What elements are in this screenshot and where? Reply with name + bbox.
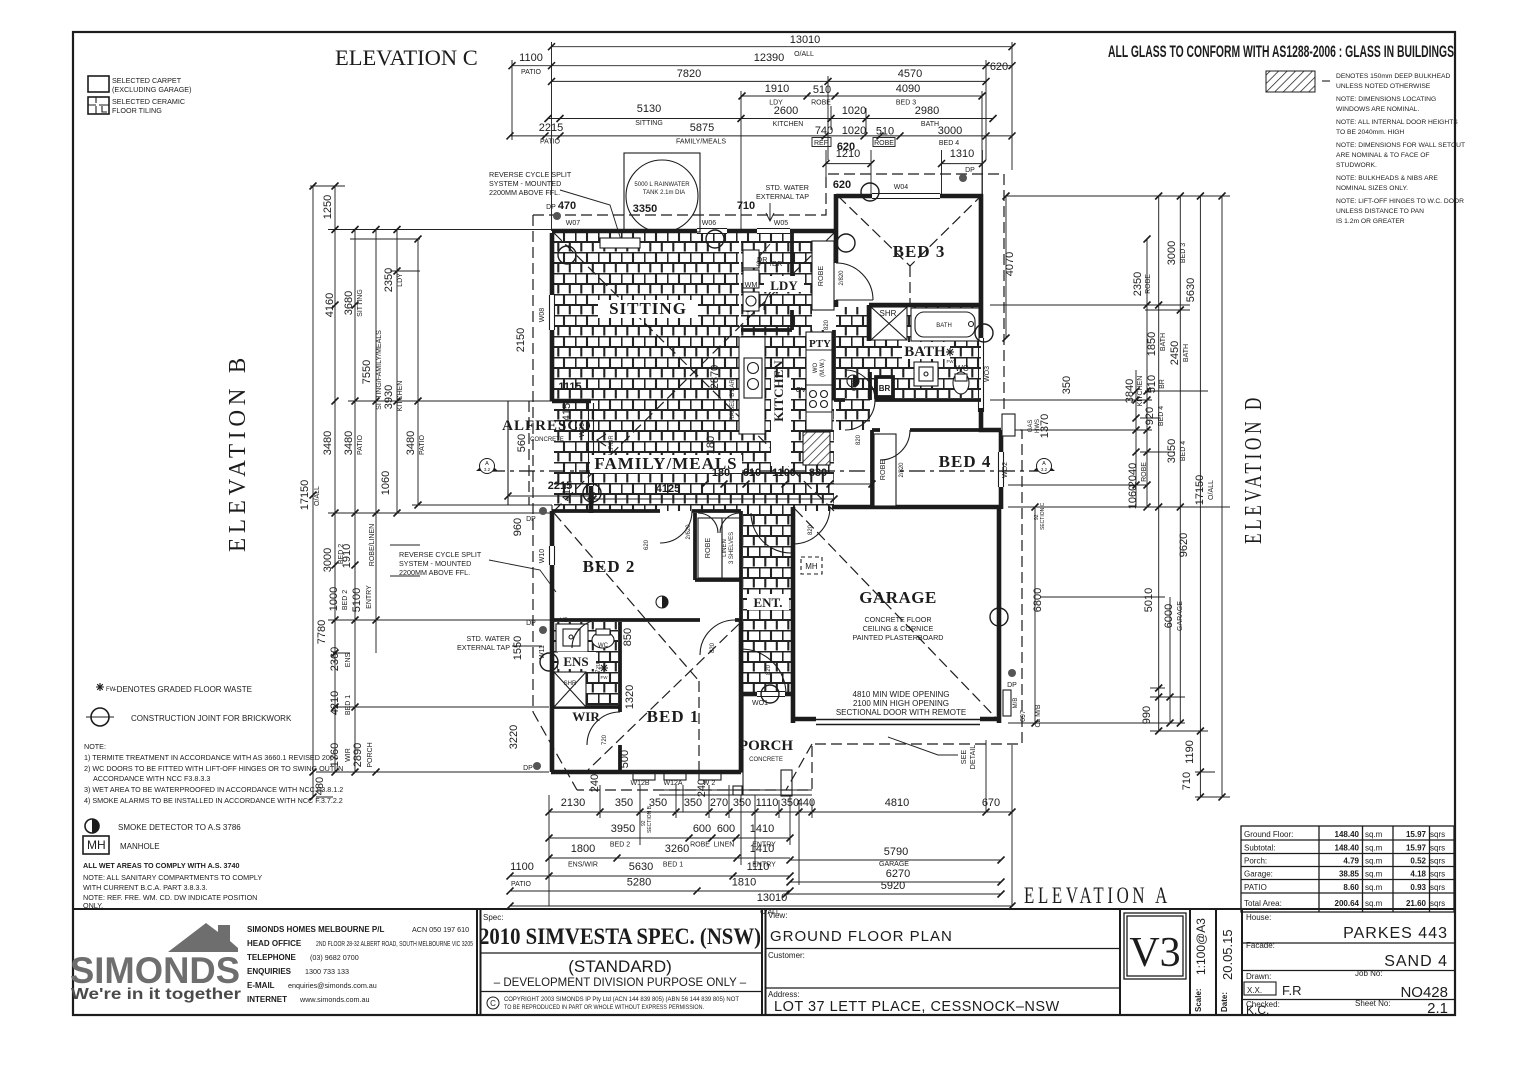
svg-text:1190: 1190 xyxy=(1184,740,1196,764)
ens fixtures xyxy=(556,624,588,652)
notes list xyxy=(84,742,343,805)
svg-text:DP: DP xyxy=(1007,682,1017,689)
svg-text:2980: 2980 xyxy=(915,105,939,117)
svg-text:510: 510 xyxy=(1146,375,1158,393)
svg-text:SELECTED CERAMIC: SELECTED CERAMIC xyxy=(112,97,185,106)
svg-text:5000 L RAINWATER: 5000 L RAINWATER xyxy=(634,182,690,188)
tiled floor regions xyxy=(554,233,739,511)
svg-text:Garage:: Garage: xyxy=(1244,870,1273,879)
legend: selected carpet xyxy=(88,76,191,94)
svg-text:1100: 1100 xyxy=(772,467,796,479)
svg-text:W12A: W12A xyxy=(663,780,682,787)
bulkhead hatch symbol xyxy=(1266,71,1315,92)
svg-text:ROBE: ROBE xyxy=(1145,274,1152,294)
dashed hips bed2/bed1 xyxy=(554,513,699,681)
svg-text:ROBE: ROBE xyxy=(878,460,887,481)
svg-text:BED 2: BED 2 xyxy=(610,842,630,849)
svg-text:Total Area:: Total Area: xyxy=(1244,899,1282,908)
svg-text:820: 820 xyxy=(824,319,830,330)
svg-text:4.18: 4.18 xyxy=(1410,870,1426,879)
svg-text:RAISED B'BAR: RAISED B'BAR xyxy=(730,379,736,421)
laundry fixtures xyxy=(743,250,759,268)
svg-text:Ground Floor:: Ground Floor: xyxy=(1244,830,1293,839)
svg-text:5130: 5130 xyxy=(637,103,661,115)
svg-text:MANHOLE: MANHOLE xyxy=(120,842,160,851)
svg-text:350: 350 xyxy=(615,797,633,809)
svg-text:500: 500 xyxy=(619,750,631,768)
svg-text:148.40: 148.40 xyxy=(1335,844,1360,853)
svg-text:ENS: ENS xyxy=(563,654,588,669)
svg-text:5920: 5920 xyxy=(881,880,905,892)
svg-text:NOTE: BULKHEADS & NIBS ARE: NOTE: BULKHEADS & NIBS ARE xyxy=(1336,175,1438,182)
svg-text:3 SHELVES: 3 SHELVES xyxy=(729,532,735,564)
svg-text:Drawn:: Drawn: xyxy=(1246,972,1271,981)
right dimension chains xyxy=(990,193,1230,801)
DP markers xyxy=(553,212,561,220)
svg-text:ELEVATION A: ELEVATION A xyxy=(1024,883,1171,908)
svg-text:820: 820 xyxy=(710,642,716,653)
svg-text:NOTE:: NOTE: xyxy=(84,742,106,751)
svg-text:180: 180 xyxy=(712,467,730,479)
svg-text:SYSTEM - MOUNTED: SYSTEM - MOUNTED xyxy=(399,559,471,568)
svg-text:(EXCLUDING GARAGE): (EXCLUDING GARAGE) xyxy=(112,85,191,94)
svg-text:2/620: 2/620 xyxy=(686,524,692,540)
svg-text:2150: 2150 xyxy=(515,328,527,352)
svg-text:350: 350 xyxy=(684,797,702,809)
svg-text:4090: 4090 xyxy=(896,83,920,95)
svg-text:1910: 1910 xyxy=(765,83,789,95)
svg-text:TANK 2.1m DIA: TANK 2.1m DIA xyxy=(643,190,685,196)
dash-dot section line A-A xyxy=(489,470,1040,472)
svg-text:620: 620 xyxy=(837,141,855,153)
svg-text:1060: 1060 xyxy=(1127,485,1139,509)
svg-text:240: 240 xyxy=(589,774,601,792)
svg-text:17150: 17150 xyxy=(299,480,311,511)
svg-text:Spec:: Spec: xyxy=(483,913,503,922)
left dimension chains xyxy=(299,183,552,801)
svg-text:TO BE 2040mm. HIGH: TO BE 2040mm. HIGH xyxy=(1336,129,1404,136)
svg-text:WITH CURRENT B.C.A. PART 3: WITH CURRENT B.C.A. PART 3.8.3.3. xyxy=(83,883,207,892)
svg-text:3.2: 3.2 xyxy=(1041,467,1048,472)
svg-text:2010 SIMVESTA SPEC. (NSW): 2010 SIMVESTA SPEC. (NSW) xyxy=(479,924,761,949)
smoke detectors xyxy=(847,375,859,387)
svg-text:620: 620 xyxy=(833,179,851,191)
svg-text:CL M/B: CL M/B xyxy=(1035,704,1042,727)
svg-text:SHR: SHR xyxy=(564,681,577,687)
svg-text:CONCRETE: CONCRETE xyxy=(749,757,783,763)
svg-text:17150: 17150 xyxy=(1194,475,1206,506)
svg-text:WC: WC xyxy=(955,364,969,373)
svg-text:NOTE: DIMENSIONS LOCATING: NOTE: DIMENSIONS LOCATING xyxy=(1336,96,1436,103)
svg-text:820: 820 xyxy=(856,434,862,445)
svg-text:– DEVELOPMENT DIVISION PURP: – DEVELOPMENT DIVISION PURPOSE ONLY – xyxy=(494,977,747,989)
svg-text:WO2: WO2 xyxy=(1002,462,1009,478)
svg-text:PATIO: PATIO xyxy=(540,139,561,146)
svg-text:DP: DP xyxy=(526,516,536,523)
svg-text:1100: 1100 xyxy=(519,52,543,64)
svg-text:2ND FLOOR 28-32 ALBERT ROAD, S: 2ND FLOOR 28-32 ALBERT ROAD, SOUTH MELBO… xyxy=(316,939,473,948)
svg-text:sqrs: sqrs xyxy=(1430,899,1445,908)
svg-text:sqrs: sqrs xyxy=(1430,857,1445,866)
svg-text:1110: 1110 xyxy=(756,797,779,809)
svg-text:PTY: PTY xyxy=(809,338,831,350)
dashed diag garage xyxy=(795,509,999,721)
svg-text:NOTE: ALL INTERNAL DOOR HEIGH: NOTE: ALL INTERNAL DOOR HEIGHTS xyxy=(1336,119,1458,126)
svg-text:BATH: BATH xyxy=(904,344,946,360)
svg-text:2040: 2040 xyxy=(1127,463,1139,487)
svg-text:S: S xyxy=(756,259,761,268)
svg-text:1550: 1550 xyxy=(512,636,524,660)
svg-text:SITTING: SITTING xyxy=(357,289,364,317)
svg-text:2450: 2450 xyxy=(1169,341,1181,365)
svg-text:2) WC DOORS TO BE FITTED: 2) WC DOORS TO BE FITTED WITH LIFT-OFF H… xyxy=(84,764,343,773)
svg-text:BED 1: BED 1 xyxy=(345,695,352,715)
svg-text:610: 610 xyxy=(743,467,761,479)
svg-text:BR: BR xyxy=(1159,379,1166,389)
windows bottom W12 xyxy=(633,772,655,780)
svg-text:2215: 2215 xyxy=(539,122,563,134)
svg-text:2215: 2215 xyxy=(548,480,572,492)
svg-text:F.R: F.R xyxy=(1282,983,1302,998)
svg-text:www.simonds.com.au: www.simonds.com.au xyxy=(299,995,370,1004)
svg-text:UNLESS NOTED OTHERWISE: UNLESS NOTED OTHERWISE xyxy=(1336,83,1431,90)
svg-text:620: 620 xyxy=(644,539,650,550)
svg-text:DP: DP xyxy=(523,765,533,772)
svg-text:WINDOWS ARE NOMINAL.: WINDOWS ARE NOMINAL. xyxy=(1336,106,1419,113)
svg-text:LINEN: LINEN xyxy=(722,539,728,557)
svg-text:BED 2: BED 2 xyxy=(583,557,636,576)
svg-text:3950: 3950 xyxy=(611,823,635,835)
svg-text:ENT.: ENT. xyxy=(753,595,782,610)
svg-text:/DR: /DR xyxy=(770,259,782,268)
svg-text:697: 697 xyxy=(1020,710,1027,722)
svg-text:House:: House: xyxy=(1246,913,1271,922)
svg-text:W11: W11 xyxy=(539,645,546,659)
svg-text:ELEVATION D: ELEVATION D xyxy=(1241,394,1267,544)
svg-text:(M.W.): (M.W.) xyxy=(820,359,826,377)
svg-text:DP: DP xyxy=(546,204,556,211)
svg-text:5100: 5100 xyxy=(351,588,363,612)
svg-text:C: C xyxy=(490,999,496,1008)
svg-text:sqrs: sqrs xyxy=(1430,883,1445,892)
svg-text:WO1: WO1 xyxy=(752,700,768,707)
svg-text:sqrs: sqrs xyxy=(1430,870,1445,879)
svg-text:200.64: 200.64 xyxy=(1335,899,1360,908)
svg-text:NOTE: DIMENSIONS FOR WALL SETO: NOTE: DIMENSIONS FOR WALL SETOUT xyxy=(1336,142,1465,149)
svg-text:ROBE: ROBE xyxy=(690,842,710,849)
svg-text:1410: 1410 xyxy=(750,843,774,855)
svg-text:(03) 9682 0700: (03) 9682 0700 xyxy=(310,953,359,962)
svg-text:sqrs: sqrs xyxy=(1430,830,1445,839)
svg-text:2200MM ABOVE FFL.: 2200MM ABOVE FFL. xyxy=(399,568,470,577)
svg-text:1100: 1100 xyxy=(510,861,534,873)
svg-text:PARKES 443: PARKES 443 xyxy=(1343,925,1448,942)
svg-text:3680: 3680 xyxy=(343,291,355,315)
svg-text:BED 1: BED 1 xyxy=(663,862,683,869)
svg-text:15.97: 15.97 xyxy=(1406,830,1427,839)
svg-text:EXTERNAL TAP: EXTERNAL TAP xyxy=(756,192,809,201)
svg-text:ROBE/LINEN: ROBE/LINEN xyxy=(369,524,376,566)
svg-text:BED 1: BED 1 xyxy=(647,707,700,726)
svg-text:KITCHEN: KITCHEN xyxy=(773,121,804,128)
svg-text:FLOOR TILING: FLOOR TILING xyxy=(112,106,162,115)
svg-text:2870: 2870 xyxy=(709,365,721,389)
svg-text:240: 240 xyxy=(696,779,708,797)
svg-text:SIMONDS: SIMONDS xyxy=(70,950,240,991)
svg-text:W07: W07 xyxy=(566,220,581,227)
svg-text:SEE: SEE xyxy=(959,750,968,765)
svg-text:ALL GLASS TO CONFORM WITH AS12: ALL GLASS TO CONFORM WITH AS1288-2006 : … xyxy=(1108,42,1454,61)
svg-text:2350: 2350 xyxy=(383,268,395,292)
svg-text:5010: 5010 xyxy=(1143,588,1155,612)
svg-text:ACCORDANCE WITH NCC F3.8.3.: ACCORDANCE WITH NCC F3.8.3.3 xyxy=(93,774,210,783)
svg-text:E-MAIL: E-MAIL xyxy=(247,981,275,990)
svg-text:415: 415 xyxy=(561,403,573,421)
svg-text:2100 MIN HIGH OPENING: 2100 MIN HIGH OPENING xyxy=(853,699,949,708)
area table xyxy=(1241,826,1454,912)
svg-text:2890: 2890 xyxy=(352,743,364,767)
svg-text:BED 3: BED 3 xyxy=(1180,243,1187,263)
svg-text:MH: MH xyxy=(87,838,106,852)
svg-text:1850: 1850 xyxy=(1146,332,1158,356)
svg-text:KITCHEN: KITCHEN xyxy=(771,360,786,422)
svg-text:LDY: LDY xyxy=(397,273,404,287)
svg-text:HEAD OFFICE: HEAD OFFICE xyxy=(247,939,302,948)
svg-text:1020: 1020 xyxy=(842,125,866,137)
dashed hips bed3 xyxy=(838,196,981,266)
svg-text:BED 4: BED 4 xyxy=(1158,406,1165,426)
svg-text:960: 960 xyxy=(512,518,524,536)
svg-text:NOTE: REF. FRE. WM. CD. D: NOTE: REF. FRE. WM. CD. DW INDICATE POSI… xyxy=(83,893,257,902)
V3 box xyxy=(1124,913,1186,979)
svg-text:1060: 1060 xyxy=(380,471,392,495)
svg-text:ROBE: ROBE xyxy=(811,100,831,107)
svg-text:SITTING: SITTING xyxy=(609,299,687,318)
svg-text:2/820: 2/820 xyxy=(839,270,845,286)
svg-text:4) SMOKE ALARMS TO BE INS: 4) SMOKE ALARMS TO BE INSTALLED IN ACCOR… xyxy=(84,796,343,805)
svg-text:3480: 3480 xyxy=(322,431,334,455)
svg-text:SHR: SHR xyxy=(880,309,897,318)
smoke detector legend xyxy=(85,819,241,833)
svg-text:ENS: ENS xyxy=(345,652,352,667)
svg-text:W08: W08 xyxy=(539,308,546,323)
svg-text:BATH: BATH xyxy=(936,323,952,329)
svg-text:W10: W10 xyxy=(539,549,546,564)
svg-text:5280: 5280 xyxy=(627,877,651,889)
svg-text:1:100@A3: 1:100@A3 xyxy=(1194,918,1208,975)
svg-text:820: 820 xyxy=(808,524,814,535)
svg-text:6270: 6270 xyxy=(886,868,910,880)
svg-text:Sheet No:: Sheet No: xyxy=(1355,999,1391,1008)
svg-text:5630: 5630 xyxy=(629,861,653,873)
svg-text:NOMINAL SIZES ONLY.: NOMINAL SIZES ONLY. xyxy=(1336,185,1408,192)
svg-text:CEILING & CORNICE: CEILING & CORNICE xyxy=(863,624,934,633)
bed3 bath fixtures xyxy=(871,307,907,340)
wet areas notes xyxy=(83,861,240,870)
svg-text:PATIO: PATIO xyxy=(419,434,426,455)
svg-text:8.60: 8.60 xyxy=(1343,883,1359,892)
svg-text:sqrs: sqrs xyxy=(1430,844,1445,853)
svg-text:BED 4: BED 4 xyxy=(1180,441,1187,461)
svg-text:3220: 3220 xyxy=(508,725,520,749)
svg-text:BED 3: BED 3 xyxy=(893,242,946,261)
svg-text:SECTION C: SECTION C xyxy=(1040,502,1046,530)
svg-text:TELEPHONE: TELEPHONE xyxy=(247,953,297,962)
svg-text:sq.m: sq.m xyxy=(1365,899,1383,908)
svg-text:PORCH: PORCH xyxy=(739,738,793,754)
svg-text:820: 820 xyxy=(766,664,772,675)
svg-text:sq.m: sq.m xyxy=(1365,857,1383,866)
svg-text:O/ALL: O/ALL xyxy=(314,486,321,506)
svg-text:4210: 4210 xyxy=(329,691,341,715)
svg-text:Facade:: Facade: xyxy=(1246,941,1275,950)
svg-text:BED 2: BED 2 xyxy=(342,590,349,610)
svg-text:ELEVATION C: ELEVATION C xyxy=(335,45,478,70)
svg-text:740: 740 xyxy=(815,125,833,137)
svg-text:560: 560 xyxy=(516,434,528,452)
svg-text:670: 670 xyxy=(982,797,1000,809)
svg-text:480: 480 xyxy=(314,777,326,795)
MH manhole xyxy=(801,557,822,574)
legend: ceramic tiling xyxy=(88,97,185,115)
svg-text:1310: 1310 xyxy=(950,148,974,160)
svg-text:BR: BR xyxy=(879,384,891,393)
svg-text:W05: W05 xyxy=(774,220,789,227)
svg-text:13010: 13010 xyxy=(790,34,821,46)
svg-text:UNLESS DISTANCE TO PAN: UNLESS DISTANCE TO PAN xyxy=(1336,208,1424,215)
svg-text:W12B: W12B xyxy=(630,780,649,787)
svg-text:ENTRY: ENTRY xyxy=(366,585,373,609)
svg-text:ENQUIRIES: ENQUIRIES xyxy=(247,967,292,976)
svg-text:3) WET AREA TO BE WATERPR: 3) WET AREA TO BE WATERPROOFED IN ACCORD… xyxy=(84,785,343,794)
title block xyxy=(73,909,1455,1015)
svg-text:3000: 3000 xyxy=(938,125,962,137)
svg-text:GARAGE: GARAGE xyxy=(1177,601,1184,631)
svg-text:ACN 050 197 610: ACN 050 197 610 xyxy=(412,925,469,934)
svg-text:KITCHEN: KITCHEN xyxy=(1137,376,1144,407)
svg-text:W04: W04 xyxy=(894,184,909,191)
svg-text:NO428: NO428 xyxy=(1400,984,1448,1001)
svg-text:1410: 1410 xyxy=(750,823,774,835)
svg-text:710: 710 xyxy=(1181,772,1193,790)
svg-text:0.93: 0.93 xyxy=(1410,883,1426,892)
robes and fixtures xyxy=(698,518,722,578)
svg-text:7780: 7780 xyxy=(316,620,328,644)
svg-text:3000: 3000 xyxy=(1166,241,1178,265)
svg-text:BED 2: BED 2 xyxy=(338,544,345,564)
svg-text:INTERNET: INTERNET xyxy=(247,995,287,1004)
top right notes xyxy=(1336,73,1465,225)
svg-text:Porch:: Porch: xyxy=(1244,857,1267,866)
svg-text:W06: W06 xyxy=(702,220,717,227)
svg-text:COPYRIGHT 2003 SIMONDS IP Pty: COPYRIGHT 2003 SIMONDS IP Pty Ltd (ACN 1… xyxy=(504,997,739,1003)
svg-text:620: 620 xyxy=(990,61,1008,73)
svg-text:270: 270 xyxy=(710,797,728,809)
svg-text:ROBE: ROBE xyxy=(1141,462,1148,482)
svg-text:M/B: M/B xyxy=(1013,698,1019,709)
svg-text:PATIO: PATIO xyxy=(511,881,532,888)
alfresco arrows xyxy=(597,434,606,446)
svg-text:SAND 4: SAND 4 xyxy=(1384,953,1448,970)
svg-text:5875: 5875 xyxy=(690,122,714,134)
svg-text:TO BE REPRODUCED IN PART OR WH: TO BE REPRODUCED IN PART OR WHOLE WITHOU… xyxy=(504,1005,704,1011)
svg-text:ENS/WIR: ENS/WIR xyxy=(568,862,598,869)
svg-text:1115: 1115 xyxy=(558,381,581,393)
svg-text:1810: 1810 xyxy=(732,877,756,889)
manhole legend xyxy=(83,836,160,854)
svg-text:ALL WET AREAS TO COMPLY WITH A: ALL WET AREAS TO COMPLY WITH A.S. 3740 xyxy=(83,861,240,870)
svg-text:720: 720 xyxy=(602,734,608,745)
svg-text:2/820: 2/820 xyxy=(899,462,905,478)
svg-text:13010: 13010 xyxy=(757,892,788,904)
svg-text:1800: 1800 xyxy=(571,843,595,855)
svg-text:LINEN: LINEN xyxy=(714,842,735,849)
svg-text:1020: 1020 xyxy=(842,105,866,117)
svg-text:WM: WM xyxy=(745,280,758,289)
svg-text:SYSTEM - MOUNTED: SYSTEM - MOUNTED xyxy=(489,179,561,188)
svg-text:ROBE: ROBE xyxy=(874,140,894,147)
svg-text:1760: 1760 xyxy=(329,743,341,767)
svg-text:7820: 7820 xyxy=(677,68,701,80)
svg-text:BED 4: BED 4 xyxy=(939,452,992,471)
svg-text:1) TERMITE TREATMENT IN AC: 1) TERMITE TREATMENT IN ACCORDANCE WITH … xyxy=(84,753,338,762)
svg-text:470: 470 xyxy=(558,200,576,212)
svg-text:SITTING/FAMILY/MEALS: SITTING/FAMILY/MEALS xyxy=(376,330,383,410)
svg-text:4125: 4125 xyxy=(656,483,680,495)
svg-text:5630: 5630 xyxy=(1185,278,1197,302)
svg-text:3930: 3930 xyxy=(383,385,395,409)
interior walls xyxy=(552,509,660,513)
svg-text:4810 MIN WIDE OPENING: 4810 MIN WIDE OPENING xyxy=(853,690,950,699)
graded floor waste legend xyxy=(96,683,252,694)
svg-text:FW: FW xyxy=(947,359,955,364)
construction joint legend xyxy=(86,708,292,726)
top dimension chains xyxy=(507,34,1016,231)
svg-text:PATIO: PATIO xyxy=(521,69,542,76)
svg-text:T: T xyxy=(746,312,750,318)
svg-text:REVERSE CYCLE SPLIT: REVERSE CYCLE SPLIT xyxy=(399,550,482,559)
svg-text:1320: 1320 xyxy=(624,685,636,709)
exterior walls xyxy=(552,229,697,234)
section marker A right xyxy=(1033,459,1055,474)
svg-text:KITCHEN: KITCHEN xyxy=(397,381,404,412)
kitchen xyxy=(739,337,765,434)
svg-text:350: 350 xyxy=(733,797,751,809)
svg-text:BATH: BATH xyxy=(921,121,939,128)
svg-text:3050: 3050 xyxy=(1166,439,1178,463)
svg-text:350: 350 xyxy=(1061,376,1073,394)
bottom dimension chains xyxy=(507,740,1016,916)
svg-text:X.X.: X.X. xyxy=(1247,986,1262,995)
svg-text:O/ALL: O/ALL xyxy=(1208,480,1215,500)
svg-text:SITTING: SITTING xyxy=(635,120,663,127)
svg-text:1000: 1000 xyxy=(328,587,340,611)
svg-text:2130: 2130 xyxy=(561,797,585,809)
svg-text:WO: WO xyxy=(813,363,819,374)
svg-text:SIMONDS HOMES MELBOURNE P/L: SIMONDS HOMES MELBOURNE P/L xyxy=(247,925,384,934)
svg-text:K.C.: K.C. xyxy=(1246,1003,1269,1017)
svg-text:LDY: LDY xyxy=(770,278,798,293)
svg-text:REVERSE CYCLE SPLIT: REVERSE CYCLE SPLIT xyxy=(489,170,572,179)
svg-text:OV: OV xyxy=(796,385,807,394)
svg-text:View:: View: xyxy=(768,911,787,920)
svg-text:CONSTRUCTION JOINT FOR BRIC: CONSTRUCTION JOINT FOR BRICKWORK xyxy=(131,714,292,723)
dashed roof overhang outline xyxy=(533,174,1022,790)
svg-text:4570: 4570 xyxy=(898,68,922,80)
svg-text:1370: 1370 xyxy=(1039,414,1051,438)
svg-text:Customer:: Customer: xyxy=(768,951,805,960)
svg-text:1300 733 133: 1300 733 133 xyxy=(305,967,349,976)
